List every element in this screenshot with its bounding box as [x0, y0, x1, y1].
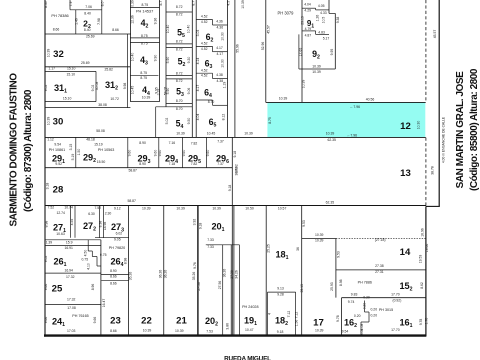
svg-text:8.66: 8.66 — [112, 28, 119, 32]
parcel 6-5 stepped boundary — [196, 99, 212, 101]
svg-text:16.91: 16.91 — [64, 246, 73, 250]
svg-text:15.10: 15.10 — [67, 67, 76, 71]
svg-text:28: 28 — [53, 185, 64, 196]
svg-text:7.06: 7.06 — [85, 5, 92, 9]
parcel 15 bottom boundary — [342, 297, 426, 299]
svg-text:7.33: 7.33 — [207, 245, 214, 249]
svg-text:4.87: 4.87 — [305, 33, 312, 37]
svg-text:PH 79820: PH 79820 — [109, 246, 125, 250]
svg-text:0.20: 0.20 — [363, 296, 370, 300]
svg-text:4.17: 4.17 — [216, 52, 223, 56]
svg-text:7.16: 7.16 — [169, 141, 176, 145]
svg-text:52.96: 52.96 — [261, 42, 265, 51]
svg-text:3.08: 3.08 — [360, 329, 364, 336]
svg-text:22: 22 — [141, 316, 152, 327]
svg-text:10.47: 10.47 — [245, 328, 254, 332]
parcel 31-1 — [45, 70, 96, 72]
svg-text:1.17: 1.17 — [48, 67, 55, 71]
svg-text:PH 24028: PH 24028 — [242, 305, 258, 309]
svg-text:9.28: 9.28 — [277, 293, 284, 297]
parcel 2-2 — [101, 0, 103, 34]
parcel 6 column edges — [195, 0, 197, 137]
svg-text:7.82: 7.82 — [191, 142, 198, 146]
svg-text:55.96: 55.96 — [235, 44, 239, 53]
svg-text:12.74: 12.74 — [56, 211, 65, 215]
svg-text:58.08: 58.08 — [96, 129, 105, 133]
svg-text:PH 3015: PH 3015 — [379, 308, 393, 312]
svg-text:4.5: 4.5 — [226, 1, 230, 6]
svg-text:4.52: 4.52 — [201, 47, 208, 51]
svg-text:9.36: 9.36 — [154, 18, 158, 25]
svg-text:(Código: 87300) Altura: 2800: (Código: 87300) Altura: 2800 — [23, 89, 34, 212]
svg-text:4.79: 4.79 — [305, 27, 312, 31]
svg-text:PH 10563: PH 10563 — [98, 148, 114, 152]
svg-text:1.56: 1.56 — [295, 320, 299, 327]
svg-text:8.75: 8.75 — [141, 34, 148, 38]
svg-text:9.66: 9.66 — [93, 317, 97, 324]
svg-text:15.10: 15.10 — [67, 73, 76, 77]
svg-text:4.52: 4.52 — [201, 42, 208, 46]
svg-text:9.60: 9.60 — [206, 150, 210, 157]
svg-text:8.96: 8.96 — [91, 284, 95, 291]
svg-text:0.75: 0.75 — [100, 253, 107, 257]
parcel 26-4 PH 79820 — [100, 240, 102, 335]
svg-text:9.76: 9.76 — [193, 262, 197, 269]
svg-text:10.74: 10.74 — [64, 206, 73, 210]
svg-text:1.78: 1.78 — [425, 318, 429, 325]
svg-text:9.12: 9.12 — [114, 206, 121, 210]
svg-text:9.54: 9.54 — [342, 330, 349, 334]
parcel 5 column right edge — [191, 0, 193, 137]
parcel PH 3079 — [265, 0, 267, 102]
svg-text:8.98: 8.98 — [339, 279, 343, 286]
svg-text:7.82: 7.82 — [191, 162, 198, 166]
svg-text:10.45: 10.45 — [207, 132, 216, 136]
svg-text:3.92: 3.92 — [193, 219, 197, 226]
parcel 14 — [336, 237, 426, 239]
svg-text:23.13: 23.13 — [301, 16, 305, 25]
svg-text:3.03: 3.03 — [196, 30, 200, 37]
svg-text:4: 4 — [267, 313, 271, 315]
svg-text:9.78: 9.78 — [336, 315, 340, 322]
lane between 6 column and 9 block — [234, 0, 236, 137]
parcel 28 bottom boundary 58.87 — [45, 205, 426, 207]
svg-text:10.39: 10.39 — [315, 328, 324, 332]
svg-text:10.39: 10.39 — [315, 239, 324, 243]
svg-text:35.26: 35.26 — [129, 272, 133, 281]
svg-text:PH 10861: PH 10861 — [49, 148, 65, 152]
parcel 21 — [163, 206, 165, 335]
svg-text:27.38: 27.38 — [375, 264, 384, 268]
svg-text:16.94: 16.94 — [64, 268, 73, 272]
parcel 29-1 PH 10861 — [75, 137, 77, 167]
svg-text:48.18: 48.18 — [86, 137, 95, 141]
parcel 9-1/9-2 stepped boundary — [302, 30, 315, 32]
svg-text:9.38: 9.38 — [336, 17, 340, 24]
parcel 14 bottom boundary — [336, 269, 426, 271]
svg-text:25.93: 25.93 — [330, 282, 334, 291]
svg-text:8.40: 8.40 — [84, 28, 91, 32]
parcel 22 — [128, 206, 130, 335]
parcel 19-1 PH 24028 — [265, 206, 267, 335]
svg-text:4.36: 4.36 — [216, 25, 223, 29]
svg-text:0.20: 0.20 — [363, 303, 367, 310]
svg-text:15.19: 15.19 — [94, 143, 103, 147]
svg-text:15.9: 15.9 — [66, 241, 73, 245]
svg-text:3.15: 3.15 — [69, 144, 73, 151]
svg-text:5.17: 5.17 — [323, 37, 330, 41]
svg-text:2.30: 2.30 — [105, 212, 112, 216]
svg-text:35.26: 35.26 — [192, 272, 196, 281]
svg-text:6.30: 6.30 — [88, 212, 95, 216]
svg-text:PH 3079: PH 3079 — [278, 10, 295, 15]
svg-text:0.20: 0.20 — [370, 314, 377, 318]
svg-text:8.66: 8.66 — [110, 275, 117, 279]
svg-text:9.18: 9.18 — [233, 151, 237, 158]
svg-text:23: 23 — [110, 316, 121, 327]
svg-text:19.53: 19.53 — [419, 255, 423, 264]
svg-text:7.37: 7.37 — [217, 140, 224, 144]
parcel 26 middle jog lines — [87, 240, 89, 251]
svg-text:7.52: 7.52 — [48, 206, 55, 210]
svg-text:17.32: 17.32 — [66, 275, 75, 279]
svg-text:10.39: 10.39 — [142, 95, 151, 99]
svg-text:9.02: 9.02 — [44, 256, 48, 263]
svg-text:8.90: 8.90 — [139, 141, 146, 145]
svg-text:10.30: 10.30 — [416, 121, 420, 130]
row 26 bottom lines — [45, 272, 101, 274]
svg-text:16.47: 16.47 — [102, 299, 106, 308]
svg-text:10.63: 10.63 — [56, 232, 65, 236]
svg-text:1.39: 1.39 — [46, 240, 53, 244]
parcel 3 top cut — [45, 33, 131, 35]
svg-text:RUEDA MIGUEL: RUEDA MIGUEL — [224, 356, 271, 360]
svg-text:10.40: 10.40 — [166, 25, 170, 34]
svg-text:25.69: 25.69 — [86, 35, 95, 39]
svg-text:4.17: 4.17 — [196, 85, 200, 92]
svg-text:18.98: 18.98 — [103, 222, 107, 231]
svg-text:9.53: 9.53 — [336, 251, 340, 258]
svg-text:7.98: 7.98 — [97, 18, 101, 25]
svg-text:10.57: 10.57 — [278, 206, 287, 210]
svg-text:SARMIENTO DOMINGO FAUSTINO: SARMIENTO DOMINGO FAUSTINO — [9, 73, 20, 227]
svg-text:9.18: 9.18 — [198, 223, 202, 230]
parcel 13 — [231, 137, 233, 335]
parcel 29-3 — [158, 137, 160, 167]
lane between 4 and 5 columns — [165, 0, 167, 107]
parcel 17 — [302, 238, 336, 240]
svg-text:7.33: 7.33 — [207, 238, 214, 242]
svg-text:0.20: 0.20 — [354, 314, 361, 318]
parcel 4 column left edge — [129, 0, 131, 102]
svg-text:0.75: 0.75 — [81, 258, 88, 262]
svg-text:10.39: 10.39 — [312, 64, 321, 68]
svg-text:8.66: 8.66 — [53, 28, 60, 32]
svg-text:12: 12 — [400, 121, 411, 132]
svg-text:2.15: 2.15 — [157, 89, 161, 96]
svg-text:10.50: 10.50 — [245, 206, 254, 210]
svg-text:45.57: 45.57 — [266, 25, 270, 34]
svg-text:36: 36 — [296, 247, 300, 251]
street widening jog — [426, 205, 440, 207]
parcel 4 column bottom — [130, 101, 159, 103]
svg-text:9.30: 9.30 — [187, 57, 191, 64]
svg-text:1.19: 1.19 — [222, 82, 226, 89]
svg-text:10.39: 10.39 — [302, 80, 306, 89]
svg-text:9.66: 9.66 — [44, 284, 48, 291]
parcel 29-5 — [205, 137, 207, 167]
svg-text:9.53: 9.53 — [302, 220, 306, 227]
svg-text:4.52: 4.52 — [201, 74, 208, 78]
svg-text:34.26: 34.26 — [235, 270, 239, 279]
svg-text:13: 13 — [400, 168, 411, 179]
svg-text:PH 76165: PH 76165 — [72, 314, 88, 318]
parcel 20-2 — [222, 245, 224, 335]
svg-text:9.05: 9.05 — [114, 238, 121, 242]
parcel 20 column left edge — [197, 206, 199, 335]
parcel 5-2 — [166, 43, 192, 45]
svg-text:10.39: 10.39 — [315, 233, 324, 237]
parcel 12 highlighted lot — [267, 102, 425, 137]
svg-text:9.60: 9.60 — [182, 150, 186, 157]
svg-text:8.72: 8.72 — [176, 48, 183, 52]
svg-text:45.57: 45.57 — [433, 30, 437, 39]
parcel 25 bottom boundary — [45, 303, 102, 305]
svg-text:4.52: 4.52 — [201, 20, 208, 24]
svg-text:4.05: 4.05 — [318, 4, 325, 8]
parcel 5-5 — [166, 11, 192, 13]
svg-text:25.25: 25.25 — [266, 244, 270, 253]
svg-text:4.10: 4.10 — [87, 263, 91, 270]
svg-text:4.33: 4.33 — [320, 11, 327, 15]
svg-text:4.52: 4.52 — [201, 15, 208, 19]
svg-text:32: 32 — [53, 49, 64, 60]
parcel 5-4 — [166, 102, 192, 104]
svg-text:10.39: 10.39 — [244, 131, 253, 135]
parcel 4-2 PH 14537 — [159, 0, 161, 102]
svg-text:38.08: 38.08 — [98, 103, 107, 107]
svg-text:4.00 m ENSANCHE DE CALLE: 4.00 m ENSANCHE DE CALLE — [442, 116, 446, 163]
svg-text:17.03: 17.03 — [67, 329, 76, 333]
svg-text:7.18: 7.18 — [169, 162, 176, 166]
svg-text:4.04: 4.04 — [304, 3, 311, 7]
svg-text:8.75: 8.75 — [141, 3, 148, 7]
parcel 29-2 PH 10563 — [127, 137, 129, 167]
svg-text:9.13: 9.13 — [277, 287, 284, 291]
svg-text:25.69: 25.69 — [81, 61, 90, 65]
svg-text:5.19: 5.19 — [71, 154, 75, 161]
svg-text:8.0: 8.0 — [101, 2, 105, 7]
svg-text:4.38: 4.38 — [216, 73, 223, 77]
svg-text:10.40: 10.40 — [130, 53, 134, 62]
parcel 6-3 stepped boundary — [196, 45, 212, 47]
svg-text:8.66: 8.66 — [110, 329, 117, 333]
svg-text:9.60: 9.60 — [128, 150, 132, 157]
parcel 27-2 — [99, 206, 101, 238]
svg-text:8.72: 8.72 — [176, 5, 183, 9]
svg-text:30: 30 — [53, 117, 64, 128]
svg-text:17.65: 17.65 — [299, 48, 303, 57]
svg-text:(0.92): (0.92) — [392, 299, 401, 303]
parcel 5-3 — [166, 75, 192, 77]
svg-text:17.08: 17.08 — [67, 306, 76, 310]
svg-text:10.39: 10.39 — [143, 328, 152, 332]
svg-text:5.02: 5.02 — [165, 118, 169, 125]
svg-text:36.26: 36.26 — [222, 269, 226, 278]
svg-text:8.75: 8.75 — [140, 71, 147, 75]
row 27 bottom lines — [95, 237, 129, 239]
parcel 30 top line — [45, 107, 131, 109]
svg-text:←7.96: ←7.96 — [350, 105, 360, 109]
svg-text:17: 17 — [313, 318, 324, 329]
svg-text:58.87: 58.87 — [127, 199, 136, 203]
svg-text:7.12: 7.12 — [287, 311, 291, 318]
svg-text:9.66: 9.66 — [44, 317, 48, 324]
svg-text:4.83: 4.83 — [318, 30, 325, 34]
svg-text:10.45: 10.45 — [131, 86, 135, 95]
svg-text:62.35: 62.35 — [326, 200, 335, 204]
svg-text:25.82: 25.82 — [104, 68, 113, 72]
parcel 19 left edge — [233, 206, 235, 335]
svg-text:8.40: 8.40 — [84, 12, 91, 16]
svg-text:8.70: 8.70 — [176, 99, 183, 103]
svg-text:9.02: 9.02 — [44, 85, 48, 92]
svg-text:3.86: 3.86 — [225, 323, 229, 330]
svg-text:PH 14537: PH 14537 — [136, 9, 153, 14]
bottom street boundary line RUEDA — [44, 334, 426, 336]
svg-text:8.72: 8.72 — [176, 79, 183, 83]
svg-text:10.39: 10.39 — [176, 132, 185, 136]
svg-text:0.20: 0.20 — [370, 308, 377, 312]
svg-text:27.56: 27.56 — [218, 281, 222, 290]
svg-text:8.70: 8.70 — [176, 107, 183, 111]
svg-text:8.72: 8.72 — [176, 71, 183, 75]
svg-text:8.72: 8.72 — [176, 40, 183, 44]
svg-text:9.18: 9.18 — [228, 185, 232, 192]
svg-text:9.18: 9.18 — [277, 330, 284, 334]
svg-text:38.78: 38.78 — [430, 166, 434, 175]
svg-text:25: 25 — [52, 284, 63, 295]
right street line SAN MARTIN lower — [425, 206, 427, 336]
svg-text:9.78: 9.78 — [419, 319, 423, 326]
parcel 4-4 — [130, 75, 158, 77]
building line dashed upper (ensanche) — [425, 0, 427, 102]
svg-text:15.50: 15.50 — [97, 160, 106, 164]
svg-text:9.95: 9.95 — [330, 49, 334, 56]
building line dashed mid (ensanche) — [425, 138, 427, 207]
svg-text:10.39: 10.39 — [241, 0, 245, 9]
svg-text:8.75: 8.75 — [141, 42, 148, 46]
svg-text:4.17: 4.17 — [216, 46, 223, 50]
parcel 9-1 stepped boundaries — [328, 0, 330, 13]
svg-text:5.90: 5.90 — [166, 57, 170, 64]
svg-text:40.56: 40.56 — [366, 98, 375, 102]
svg-text:58.87: 58.87 — [128, 168, 137, 172]
svg-text:8.30: 8.30 — [44, 1, 48, 8]
parcel 9-2 — [298, 34, 300, 69]
svg-text:10.39: 10.39 — [212, 206, 221, 210]
svg-text:10.39: 10.39 — [142, 206, 151, 210]
svg-text:12.36: 12.36 — [130, 15, 134, 24]
parcel 18-1 — [301, 206, 303, 335]
svg-text:7.37: 7.37 — [217, 162, 224, 166]
parcel PH 78386 — [69, 0, 71, 10]
svg-text:(Código: 85800) Altura: 2800: (Código: 85800) Altura: 2800 — [469, 68, 480, 191]
svg-text:27.56: 27.56 — [230, 270, 234, 279]
svg-text:PH 78386: PH 78386 — [51, 13, 68, 18]
parcel 16-2 — [341, 298, 343, 335]
svg-text:9.60: 9.60 — [158, 150, 162, 157]
svg-text:8.62: 8.62 — [420, 282, 424, 289]
svg-text:9.90: 9.90 — [154, 55, 158, 62]
svg-text:4.50: 4.50 — [84, 250, 88, 257]
svg-text:8.90: 8.90 — [139, 162, 146, 166]
svg-text:14: 14 — [400, 247, 411, 258]
svg-text:4.52: 4.52 — [201, 68, 208, 72]
parcel 6-4 stepped boundary — [196, 72, 212, 74]
parcel 12 bottom boundary — [45, 136, 426, 138]
svg-text:8.98: 8.98 — [124, 258, 128, 265]
svg-text:1.26: 1.26 — [316, 15, 320, 22]
svg-text:8.70: 8.70 — [208, 100, 215, 104]
row 29 bottom boundary — [45, 167, 232, 169]
svg-text:15.10: 15.10 — [63, 97, 72, 101]
svg-text:10.72: 10.72 — [110, 97, 119, 101]
parcel 27-1 — [70, 206, 72, 238]
svg-text:1.12: 1.12 — [47, 137, 54, 141]
svg-text:9.83: 9.83 — [351, 292, 358, 296]
parcel 12 top boundary line — [266, 101, 426, 103]
svg-text:30.08: 30.08 — [95, 82, 99, 91]
svg-text:8.98: 8.98 — [44, 221, 48, 228]
svg-text:8.75: 8.75 — [140, 76, 147, 80]
svg-text:4.29: 4.29 — [304, 8, 311, 12]
svg-text:10.39: 10.39 — [47, 49, 51, 58]
svg-text:SAN MARTIN GRAL. JOSE: SAN MARTIN GRAL. JOSE — [455, 71, 466, 188]
svg-text:17.32: 17.32 — [67, 297, 76, 301]
right street line SAN MARTIN upper — [438, 0, 440, 206]
svg-text:10.40: 10.40 — [187, 25, 191, 34]
svg-text:PH 7886: PH 7886 — [358, 281, 372, 285]
svg-text:10.5: 10.5 — [322, 17, 326, 24]
svg-text:16.96: 16.96 — [420, 228, 424, 237]
svg-text:27.56: 27.56 — [197, 282, 201, 291]
svg-text:36.26: 36.26 — [158, 270, 162, 279]
svg-text:9.52: 9.52 — [55, 162, 62, 166]
svg-text:10.39: 10.39 — [279, 97, 288, 101]
svg-text:10.39: 10.39 — [47, 117, 51, 126]
svg-text:4.14: 4.14 — [196, 58, 200, 65]
svg-text:7.53: 7.53 — [206, 330, 213, 334]
svg-text:4.36: 4.36 — [216, 19, 223, 23]
svg-text:9.06: 9.06 — [187, 88, 191, 95]
svg-text:9.98: 9.98 — [123, 83, 127, 90]
svg-text:10.39: 10.39 — [326, 131, 335, 135]
svg-text:8.75: 8.75 — [268, 117, 272, 124]
svg-text:3.18: 3.18 — [45, 183, 49, 190]
svg-text:(27.18): (27.18) — [375, 238, 386, 242]
svg-text:1.50: 1.50 — [77, 149, 81, 156]
svg-text:6.02: 6.02 — [116, 232, 123, 236]
svg-text:5.90: 5.90 — [166, 88, 170, 95]
svg-text:19.66: 19.66 — [425, 244, 429, 253]
svg-text:10.30: 10.30 — [221, 32, 225, 41]
svg-text:21: 21 — [176, 316, 187, 327]
svg-text:8.72: 8.72 — [176, 13, 183, 17]
parcel 18-2 — [268, 291, 296, 293]
svg-text:0.39: 0.39 — [131, 0, 135, 7]
svg-text:10.39: 10.39 — [176, 206, 185, 210]
